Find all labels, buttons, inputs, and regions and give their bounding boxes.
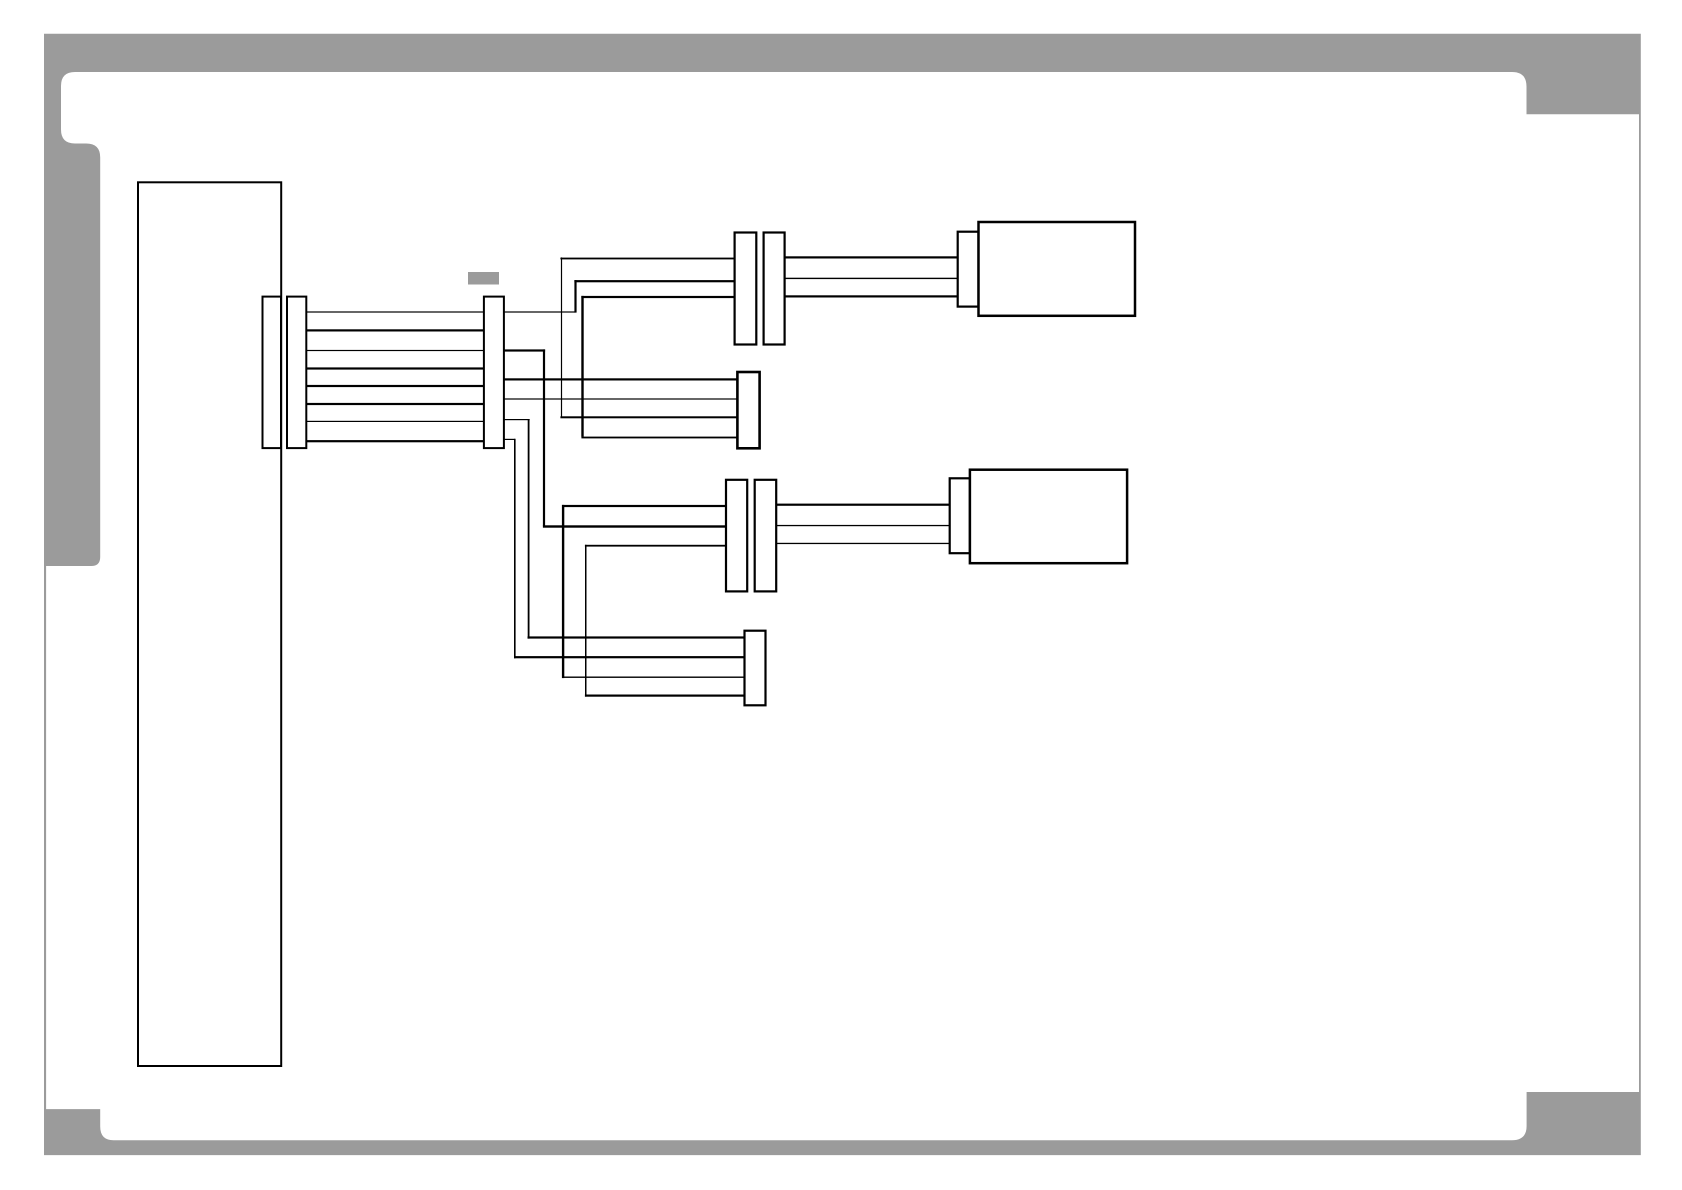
wire W2 run to lower connector — [543, 525, 726, 527]
wire E run to bottom connector — [585, 695, 745, 697]
top device plug stub — [958, 232, 979, 307]
wire W3 to mid connector — [504, 378, 738, 380]
junction bar CN2 (middle distribution connector) — [484, 297, 504, 449]
wire C lower run to mid connector — [581, 437, 737, 439]
connector bar CN1b (mating) — [287, 297, 306, 449]
lower connector pair CN5a — [726, 480, 747, 592]
wire to top device 3 — [785, 295, 958, 297]
wire E run into lower connector — [585, 545, 726, 547]
wire to top device 1 — [785, 256, 958, 258]
lower connector pair CN5b — [755, 480, 777, 592]
bottom connector CN6 — [745, 631, 766, 706]
wire W5 run to bottom connector — [528, 636, 745, 638]
lower device box M2 — [970, 470, 1127, 564]
wire W6 run to bottom connector — [514, 656, 745, 658]
top connector pair CN4b — [764, 233, 785, 345]
wire B lower run to mid connector — [560, 416, 737, 418]
wire E vertical — [585, 545, 587, 697]
wire B vertical (thin) — [561, 257, 562, 417]
wire C vertical — [581, 296, 583, 437]
top device box M1 — [979, 222, 1136, 316]
wire W1 stub from CN2 — [504, 311, 576, 312]
wire D vertical — [562, 505, 564, 678]
ribbon wire 5 — [306, 385, 484, 387]
wire W4 to mid connector (thin) — [504, 398, 738, 399]
wire W6 vertical down — [514, 439, 516, 659]
wire W1 to top connector — [574, 280, 734, 282]
wire to lower device 2 (thin) — [776, 525, 950, 526]
wire D run to bottom connector (thin) — [562, 677, 745, 678]
main board box P1 — [138, 182, 281, 1066]
wire to lower device 3 (thin) — [776, 543, 950, 544]
ribbon wire 7 — [306, 421, 484, 422]
wire to top device 2 (thin) — [785, 278, 958, 279]
wire W6 stub from CN2 — [504, 439, 515, 440]
ribbon wire 4 — [306, 367, 484, 369]
wire W1 elbow up — [574, 280, 576, 313]
wire D run into lower connector — [562, 505, 726, 507]
wire W2 stub from CN2 — [504, 349, 545, 351]
ribbon wire 2 — [306, 329, 484, 331]
wire W5 stub from CN2 — [504, 419, 530, 420]
wire W5 vertical down — [528, 419, 530, 639]
top connector pair CN4a — [735, 233, 757, 345]
wire B top run to top connector — [560, 258, 734, 260]
mid single connector CN3 — [737, 372, 759, 448]
lower device plug stub — [950, 478, 970, 553]
ribbon wire 6 — [306, 403, 484, 405]
ribbon wire 1 — [306, 311, 484, 312]
connector bar CN1a (on main board edge) — [263, 297, 282, 449]
ribbon wire 8 — [306, 440, 484, 442]
wire to lower device 1 — [776, 504, 950, 506]
wire W2 vertical down — [543, 349, 545, 526]
ribbon wire 3 — [306, 350, 484, 351]
wire C top run to top connector — [581, 296, 734, 298]
gray label block above CN2 — [468, 272, 499, 285]
